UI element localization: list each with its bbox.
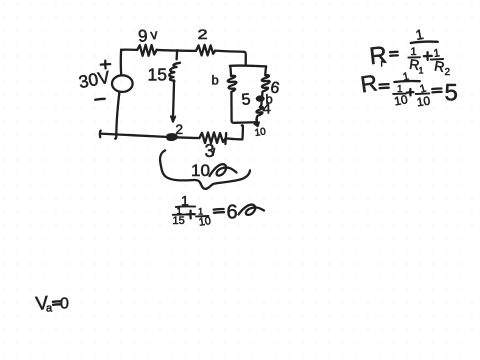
wire from R2 to right corner	[215, 51, 246, 65]
junction tick to R3	[175, 50, 178, 59]
wire from R3 down with arrowhead	[173, 82, 174, 120]
resistor R7 (3 ohm) zigzag	[199, 132, 226, 144]
voltage source V1	[112, 75, 133, 92]
plus	[424, 52, 432, 60]
wire top bar of parallel pair	[230, 64, 266, 67]
svg-text:b: b	[212, 73, 219, 88]
resistor R5 (6 ohm, right branch top)	[262, 66, 270, 91]
svg-text:6: 6	[227, 202, 238, 224]
svg-text:5: 5	[241, 91, 252, 109]
wire top rail left segment	[121, 48, 137, 51]
svg-text:10: 10	[416, 94, 431, 110]
plus sign	[187, 211, 195, 219]
polarity +	[101, 61, 110, 69]
plus	[407, 89, 414, 95]
wire left side down from source	[115, 92, 119, 139]
svg-text:a: a	[46, 303, 53, 315]
omega symbol (6 ohm)	[239, 205, 265, 215]
resistor R1 (9 ohm) zigzag	[137, 45, 156, 56]
wire bottom bar of parallel pair	[232, 121, 257, 123]
svg-text:R: R	[368, 42, 388, 71]
node 2 junction dot	[167, 134, 176, 140]
polarity -	[95, 99, 105, 100]
wire between R1 and R2	[157, 50, 196, 51]
fraction bar	[411, 42, 438, 43]
svg-text:10: 10	[198, 215, 212, 229]
stray tick mark	[213, 149, 215, 156]
svg-text:10: 10	[393, 92, 409, 108]
main fraction bar	[176, 205, 195, 208]
svg-text:10: 10	[191, 161, 210, 180]
svg-text:2: 2	[176, 122, 184, 137]
resistor R4 (6 ohm, left branch)	[228, 66, 237, 121]
wire node 2 to R7	[177, 136, 200, 139]
svg-text:9: 9	[137, 26, 148, 46]
svg-text:1: 1	[419, 66, 424, 76]
wire R7 to right riser	[226, 125, 243, 139]
fraction bar	[394, 80, 419, 83]
svg-text:0: 0	[60, 296, 69, 313]
resistor R2 (2 ohm) zigzag	[196, 45, 215, 56]
svg-text:15: 15	[173, 215, 185, 227]
wire top-left vertical (source to top rail)	[120, 50, 123, 75]
equals	[390, 52, 398, 56]
equals sign	[214, 209, 224, 213]
resistor R6 (4 ohm)	[256, 105, 262, 121]
svg-text:15: 15	[148, 65, 167, 85]
svg-text:4: 4	[263, 101, 271, 118]
svg-text:2: 2	[197, 27, 207, 43]
brace annotation under R7	[160, 150, 250, 188]
svg-text:2: 2	[445, 67, 451, 78]
equals	[379, 84, 388, 88]
equals	[432, 89, 441, 93]
svg-text:5: 5	[445, 80, 458, 107]
node b junction blob	[261, 92, 262, 105]
resistor R3 (15 ohm) vertical with wire arrow to node 2	[169, 63, 180, 82]
omega symbol (10 ohm)	[210, 164, 237, 176]
svg-text:10: 10	[254, 126, 267, 139]
wire bottom rail left segment	[100, 131, 171, 138]
arrow tick at node 10	[255, 119, 259, 126]
